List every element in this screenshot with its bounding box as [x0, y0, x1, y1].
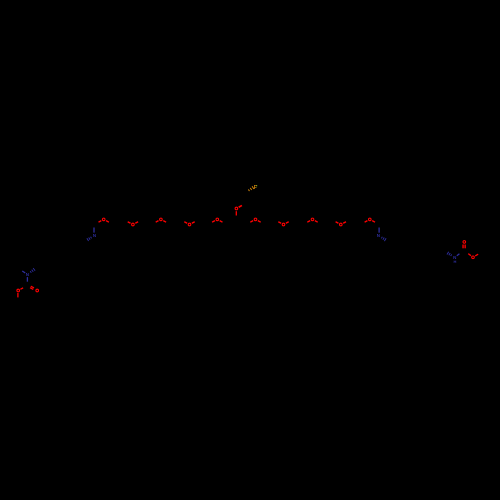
svg-text:N: N — [93, 233, 96, 238]
atom O15 (PEG ether oxygen) — [340, 223, 343, 226]
atom O12 (PEG ether oxygen) — [254, 218, 257, 221]
wire bond N5-C6 vertical (blue half) — [93, 228, 95, 233]
hashed stereo bond N5 to alkyl chain — [90, 237, 93, 239]
wire bond O13-C left (red half) — [278, 222, 281, 224]
svg-text:N: N — [26, 272, 29, 277]
hashed stereo bond N1 to chain carbon — [30, 271, 31, 273]
double bond C2=O3 (red halves) — [31, 286, 34, 288]
wire bond O15-C right (red half) — [343, 222, 346, 224]
wire bond O15-C left (red half) — [336, 222, 339, 224]
wire bond N1-C2 carbonyl (blue half) — [26, 277, 28, 282]
wire bond O17 to central chain carbon (red half) — [235, 211, 237, 215]
wire bond O10-C right (red half) — [192, 222, 195, 224]
atom O24 (Boc carbonyl oxygen) — [463, 241, 466, 244]
wire bond O9-C left (red half) — [156, 221, 159, 223]
wire bond O16-C left (red half) — [365, 221, 368, 223]
wire bond O7-C left (red half) — [99, 221, 102, 223]
atom O7 (PEG ether oxygen) — [102, 218, 105, 221]
wire bond O11-C left (red half) — [212, 221, 215, 223]
hashed stereo bond chain-N22 — [451, 254, 452, 256]
atom O11 (PEG ether oxygen) — [216, 218, 219, 221]
svg-text:N: N — [377, 233, 380, 238]
wire bond O25-C23 (red half) — [468, 254, 471, 256]
atom O9 (PEG ether oxygen) — [160, 218, 163, 221]
wire bond O25-C26 tert-butyl (red half) — [475, 254, 478, 256]
wire bond O8-C left (red half) — [128, 222, 131, 224]
svg-text:H: H — [454, 259, 457, 264]
double bond C23=O24 (red halves) — [462, 245, 464, 249]
wire bond O8-C right (red half) — [135, 222, 138, 224]
atom O14 (PEG ether oxygen) — [311, 218, 314, 221]
wire bond N22-C23 (blue half) — [457, 254, 460, 256]
atom O13 (PEG ether oxygen) — [282, 223, 285, 226]
atom O4 (left carbamate ester oxygen) — [17, 289, 20, 292]
wire bond O17-C18 wedge (red half) — [239, 205, 242, 207]
wire bond O4-CH3 methyl (red half) — [17, 293, 19, 297]
atom O17 (branch oxygen) — [235, 207, 238, 210]
wire bond N1-CH3 methyl (blue half) — [22, 271, 25, 273]
wire bond O14-C left (red half) — [307, 221, 310, 223]
atom O10 (PEG ether oxygen) — [188, 223, 191, 226]
wire bond O7-C right (red half) — [106, 221, 109, 223]
wire bond O13-C right (red half) — [286, 222, 289, 224]
wire bond O4-C2 (red half) — [20, 288, 23, 290]
atom O25 (Boc ester oxygen) — [472, 256, 475, 259]
wire bond O9-C right (red half) — [163, 221, 166, 223]
atom O16 (PEG ether oxygen) — [369, 218, 372, 221]
atom O3 (left carbamate carbonyl oxygen) — [36, 289, 39, 292]
wire bond O10-C left (red half) — [184, 222, 187, 224]
wire bond O12-C right (red half) — [258, 221, 261, 223]
hashed stereo bond N21 to alkyl chain — [381, 237, 382, 239]
atom O8 (PEG ether oxygen) — [132, 223, 135, 226]
wire bond O11-C right (red half) — [220, 221, 223, 223]
hashed wedge bond C19-F20 (orange) — [248, 189, 249, 191]
wire bond O12-C left (red half) — [250, 221, 253, 223]
wire bond O14-C right (red half) — [315, 221, 318, 223]
wire bond C-N21 vertical (blue half) — [378, 228, 380, 233]
wire bond O16-C right (red half) — [372, 221, 375, 223]
